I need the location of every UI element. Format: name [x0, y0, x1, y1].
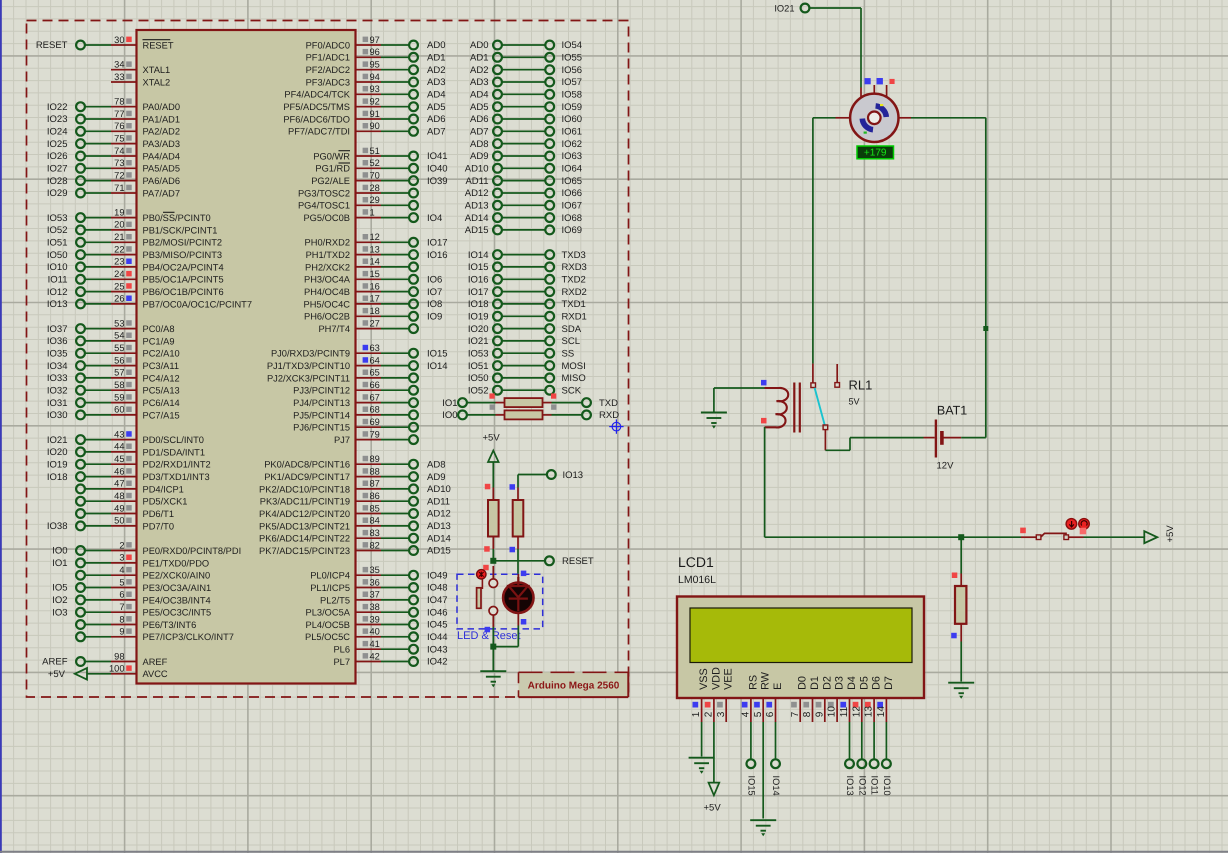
- LCD pin 10 D3: [827, 676, 846, 722]
- pin 68 PJ5/PCINT14 right: [293, 405, 418, 421]
- svg-text:D2: D2: [821, 676, 833, 690]
- svg-text:52: 52: [370, 158, 380, 168]
- svg-text:IO36: IO36: [47, 336, 68, 347]
- svg-text:IO67: IO67: [562, 201, 583, 212]
- svg-text:PG2/ALE: PG2/ALE: [311, 176, 350, 186]
- pin 41 PL6 right: [333, 639, 447, 655]
- svg-text:PB2/MOSI/PCINT2: PB2/MOSI/PCINT2: [143, 238, 223, 248]
- pin 89 PK0/ADC8/PCINT16 right: [264, 454, 445, 470]
- svg-text:PE2/XCK0/AIN0: PE2/XCK0/AIN0: [143, 571, 211, 581]
- svg-text:D6: D6: [871, 676, 883, 690]
- svg-text:27: 27: [370, 318, 380, 328]
- pin 42 PL7 right: [333, 651, 447, 667]
- pin 22 PB3/MISO/PCINT3 left: [47, 244, 222, 260]
- pin 12 PH0/RXD2 right: [305, 232, 448, 248]
- svg-text:IO40: IO40: [427, 164, 448, 175]
- wire net AD7 to terminal IO61: [470, 127, 582, 138]
- svg-text:+179: +179: [864, 148, 887, 159]
- svg-text:PJ1/TXD3/PCINT10: PJ1/TXD3/PCINT10: [267, 361, 350, 371]
- svg-text:AD0: AD0: [427, 40, 445, 51]
- svg-text:AD4: AD4: [470, 90, 488, 101]
- svg-text:51: 51: [370, 146, 380, 156]
- svg-text:6: 6: [119, 590, 124, 600]
- svg-text:79: 79: [370, 429, 380, 439]
- svg-text:IO21: IO21: [774, 4, 794, 14]
- svg-text:PL3/OC5A: PL3/OC5A: [306, 608, 351, 618]
- svg-text:AD11: AD11: [465, 176, 488, 187]
- pin 70 PG2/ALE right: [311, 170, 447, 186]
- pin 100 AVCC / power +5V: [48, 664, 168, 680]
- terminal IO11 (LCD data): [870, 722, 880, 795]
- svg-text:PH6/OC2B: PH6/OC2B: [304, 312, 350, 322]
- svg-text:IO65: IO65: [562, 176, 583, 187]
- svg-text:RL1: RL1: [849, 378, 873, 393]
- svg-text:IO15: IO15: [468, 262, 489, 273]
- svg-text:20: 20: [114, 220, 124, 230]
- relay RL1 coil: [714, 380, 800, 433]
- pin 2 PE0/RXD0/PCINT8/PDI left: [52, 540, 241, 556]
- svg-text:33: 33: [114, 72, 124, 82]
- resistor R3 between IO1 and TXD: [442, 398, 618, 409]
- svg-text:PH7/T4: PH7/T4: [318, 324, 350, 334]
- svg-text:PG4/TOSC1: PG4/TOSC1: [298, 201, 350, 211]
- svg-text:IO11: IO11: [48, 275, 68, 286]
- svg-text:45: 45: [114, 454, 124, 464]
- pin 72 PA6/AD6 left: [47, 170, 180, 186]
- svg-text:IO43: IO43: [427, 644, 448, 655]
- svg-text:AD7: AD7: [427, 127, 445, 138]
- svg-text:IO5: IO5: [52, 583, 67, 594]
- ground (resistor): [948, 683, 974, 694]
- svg-text:IO48: IO48: [427, 583, 448, 594]
- node junction / wire to RESET terminal: [490, 556, 594, 567]
- pin 14 PH2/XCK2 right: [305, 257, 418, 273]
- wire net AD8 to terminal IO62: [470, 139, 582, 150]
- svg-text:PC7/A15: PC7/A15: [143, 410, 180, 420]
- svg-text:8: 8: [119, 614, 124, 624]
- svg-text:IO20: IO20: [47, 447, 68, 458]
- pin 78 PA0/AD0 left: [47, 97, 180, 113]
- svg-text:PL0/ICP4: PL0/ICP4: [310, 571, 350, 581]
- svg-text:IO53: IO53: [468, 348, 489, 359]
- svg-text:AD14: AD14: [427, 533, 451, 544]
- svg-text:PD3/TXD1/INT3: PD3/TXD1/INT3: [143, 472, 210, 482]
- svg-text:PA2/AD2: PA2/AD2: [143, 127, 181, 137]
- svg-text:+5V: +5V: [48, 669, 66, 680]
- pin 75 PA3/AD3 left: [47, 133, 180, 149]
- LCD pin 7 D0: [790, 676, 809, 722]
- svg-text:XTAL2: XTAL2: [143, 77, 171, 87]
- pin 55 PC2/A10 left: [47, 343, 180, 359]
- wire net IO14 to terminal TXD3: [468, 250, 586, 261]
- svg-text:95: 95: [370, 60, 380, 70]
- svg-text:PL7: PL7: [333, 657, 350, 667]
- svg-text:PB6/OC1B/PCINT6: PB6/OC1B/PCINT6: [143, 287, 224, 297]
- svg-text:IO12: IO12: [47, 287, 68, 298]
- svg-text:IO53: IO53: [47, 213, 68, 224]
- terminal IO13 (LCD data): [845, 722, 855, 796]
- svg-text:PF5/ADC5/TMS: PF5/ADC5/TMS: [283, 102, 350, 112]
- svg-text:PE7/ICP3/CLKO/INT7: PE7/ICP3/CLKO/INT7: [143, 632, 234, 642]
- pin 34 XTAL1 left: [111, 60, 170, 76]
- svg-text:PE1/TXD0/PDO: PE1/TXD0/PDO: [143, 558, 210, 568]
- svg-text:PA5/AD5: PA5/AD5: [143, 164, 181, 174]
- svg-text:D0: D0: [797, 676, 809, 690]
- svg-text:IO21: IO21: [47, 435, 68, 446]
- svg-text:IO17: IO17: [468, 287, 489, 298]
- pin 13 PH1/TXD2 right: [306, 244, 448, 260]
- pin 52 PG1/RD right: [315, 158, 447, 174]
- svg-text:PD5/XCK1: PD5/XCK1: [143, 497, 188, 507]
- svg-text:PC4/A12: PC4/A12: [143, 373, 180, 383]
- svg-text:VSS: VSS: [698, 668, 710, 690]
- svg-text:97: 97: [370, 35, 380, 45]
- pin 67 PJ4/PCINT13 right: [293, 392, 418, 408]
- pin 47 PD4/ICP1 left: [76, 479, 184, 495]
- svg-text:3: 3: [716, 711, 727, 717]
- svg-text:18: 18: [370, 306, 380, 316]
- svg-text:PH0/RXD2: PH0/RXD2: [305, 238, 350, 248]
- svg-text:IO7: IO7: [427, 287, 442, 298]
- svg-text:PL5/OC5C: PL5/OC5C: [305, 632, 350, 642]
- svg-text:PK2/ADC10/PCINT18: PK2/ADC10/PCINT18: [259, 484, 350, 494]
- svg-text:IO1: IO1: [52, 558, 67, 569]
- svg-text:TXD: TXD: [599, 398, 618, 409]
- pin 15 PH3/OC4A right: [304, 269, 442, 285]
- pin 20 PB1/SCK/PCINT1 left: [47, 220, 218, 236]
- svg-text:VEE: VEE: [723, 668, 735, 690]
- svg-text:55: 55: [114, 343, 124, 353]
- svg-text:4: 4: [741, 711, 752, 717]
- Arduino Mega 2560 label box: [519, 672, 629, 697]
- svg-text:PH2/XCK2: PH2/XCK2: [305, 262, 350, 272]
- wire net AD5 to terminal IO59: [470, 102, 582, 113]
- wire net IO52 to terminal SCK: [468, 385, 582, 396]
- svg-text:PA3/AD3: PA3/AD3: [143, 139, 181, 149]
- terminal IO15 (LCD RS): [746, 722, 756, 796]
- pin 16 PH4/OC4B right: [304, 281, 442, 297]
- wire LCD VSS to ground: [701, 722, 703, 757]
- svg-text:IO52: IO52: [468, 385, 489, 396]
- svg-text:38: 38: [370, 602, 380, 612]
- svg-text:IO0: IO0: [442, 410, 457, 421]
- node junction +5V rail: [958, 534, 964, 540]
- node junction on right branch: [983, 326, 988, 331]
- wire motor left to relay common: [813, 117, 836, 119]
- pin 65 PJ2/XCK3/PCINT11 right: [267, 368, 418, 384]
- svg-text:23: 23: [114, 257, 124, 267]
- svg-text:25: 25: [114, 281, 124, 291]
- svg-text:IO19: IO19: [468, 312, 489, 323]
- battery BAT1: [924, 404, 968, 472]
- pin 36 PL1/ICP5 right: [310, 577, 447, 593]
- pin 64 PJ1/TXD3/PCINT10 right: [267, 355, 448, 371]
- svg-text:67: 67: [370, 392, 380, 402]
- svg-text:IO12: IO12: [857, 776, 867, 796]
- svg-text:IO56: IO56: [562, 65, 583, 76]
- pin 46 PD3/TXD1/INT3 left: [47, 466, 210, 482]
- svg-text:AD3: AD3: [427, 77, 445, 88]
- svg-text:AD14: AD14: [465, 213, 489, 224]
- svg-text:93: 93: [370, 84, 380, 94]
- svg-text:E: E: [772, 683, 784, 690]
- switch actuator buttons: [1066, 519, 1089, 535]
- svg-text:RESET: RESET: [143, 40, 174, 50]
- svg-text:68: 68: [370, 405, 380, 415]
- svg-text:IO62: IO62: [562, 139, 583, 150]
- svg-text:75: 75: [114, 133, 124, 143]
- svg-text:AD7: AD7: [470, 127, 488, 138]
- svg-text:AD6: AD6: [470, 114, 488, 125]
- svg-text:PJ6/PCINT15: PJ6/PCINT15: [293, 423, 350, 433]
- wire net AD13 to terminal IO67: [465, 201, 582, 212]
- svg-text:IO18: IO18: [47, 472, 68, 483]
- pin 91 PF6/ADC6/TDO right: [283, 109, 445, 125]
- svg-text:IO0: IO0: [52, 546, 67, 557]
- svg-text:1: 1: [370, 207, 375, 217]
- pin 27 PH7/T4 right: [318, 318, 417, 334]
- svg-text:4: 4: [119, 565, 124, 575]
- selection box LED & Reset: [457, 574, 543, 629]
- svg-text:IO16: IO16: [468, 275, 489, 286]
- svg-text:PD6/T1: PD6/T1: [143, 509, 175, 519]
- svg-text:RXD2: RXD2: [562, 287, 587, 298]
- pin 17 PH5/OC4C right: [304, 294, 443, 310]
- svg-text:IO69: IO69: [562, 225, 583, 236]
- pin 57 PC4/A12 left: [47, 368, 180, 384]
- svg-text:5: 5: [753, 711, 764, 717]
- svg-text:73: 73: [114, 158, 124, 168]
- pin 60 PC7/A15 left: [47, 405, 180, 421]
- svg-text:1: 1: [691, 711, 702, 717]
- svg-text:PF2/ADC2: PF2/ADC2: [306, 65, 350, 75]
- terminal IO14 (LCD E): [771, 722, 781, 796]
- pin 79 PJ7 right: [334, 429, 418, 445]
- svg-text:D4: D4: [846, 676, 858, 690]
- wire net IO53 to terminal SS: [468, 348, 574, 359]
- pin 69 PJ6/PCINT15 right: [293, 417, 418, 433]
- motor M1: [836, 78, 912, 142]
- svg-text:IO14: IO14: [427, 361, 448, 372]
- svg-text:+5V: +5V: [1165, 525, 1176, 543]
- pin 28 PG3/TOSC2 right: [298, 183, 418, 199]
- pin 40 PL5/OC5C right: [305, 627, 448, 643]
- svg-text:7: 7: [119, 602, 124, 612]
- pin 54 PC1/A9 left: [47, 331, 175, 347]
- svg-text:PH5/OC4C: PH5/OC4C: [304, 299, 351, 309]
- LCD pin 3 VEE: [716, 668, 735, 722]
- op-amp U1 : ATMEGA2560 IC body: [137, 30, 356, 684]
- pin 7 PE5/OC3C/INT5 left: [52, 602, 211, 618]
- pin 77 PA1/AD1 left: [47, 109, 180, 125]
- svg-text:IO64: IO64: [562, 164, 583, 175]
- svg-text:IO1: IO1: [442, 398, 457, 409]
- pin 76 PA2/AD2 left: [47, 121, 180, 137]
- svg-text:21: 21: [114, 232, 124, 242]
- svg-text:IO8: IO8: [427, 299, 442, 310]
- LCD pin 5 RW: [753, 671, 772, 722]
- wire button/LED to ground: [485, 626, 519, 672]
- wire net AD15 to terminal IO69: [465, 225, 582, 236]
- wire net AD2 to terminal IO56: [470, 65, 582, 76]
- svg-text:PA1/AD1: PA1/AD1: [143, 114, 181, 124]
- svg-text:AD5: AD5: [470, 102, 488, 113]
- svg-text:PB5/OC1A/PCINT5: PB5/OC1A/PCINT5: [143, 275, 224, 285]
- svg-text:AD1: AD1: [427, 53, 445, 64]
- pin 56 PC3/A11 left: [47, 355, 179, 371]
- svg-text:IO15: IO15: [746, 776, 756, 796]
- svg-text:IO35: IO35: [47, 348, 68, 359]
- LCD pin 4 RS: [741, 675, 760, 722]
- svg-text:MOSI: MOSI: [562, 361, 586, 372]
- svg-text:AD1: AD1: [470, 53, 488, 64]
- svg-text:60: 60: [114, 405, 124, 415]
- svg-text:74: 74: [114, 146, 124, 156]
- svg-text:89: 89: [370, 454, 380, 464]
- LCD pin 6 E: [765, 683, 784, 722]
- pin 26 PB7/OC0A/OC1C/PCINT7 left: [47, 294, 252, 310]
- svg-text:IO14: IO14: [771, 776, 781, 796]
- ground (relay coil): [701, 388, 727, 429]
- svg-text:IO28: IO28: [47, 176, 68, 187]
- svg-text:PG5/OC0B: PG5/OC0B: [303, 213, 350, 223]
- svg-text:IO11: IO11: [870, 776, 880, 795]
- svg-text:IO60: IO60: [562, 114, 583, 125]
- svg-text:RW: RW: [760, 671, 772, 690]
- svg-text:AD5: AD5: [427, 102, 445, 113]
- svg-text:PE5/OC3C/INT5: PE5/OC3C/INT5: [143, 608, 212, 618]
- svg-text:AD9: AD9: [427, 472, 445, 483]
- svg-text:RS: RS: [747, 675, 759, 690]
- wire net AD9 to terminal IO63: [470, 151, 582, 162]
- svg-text:PG0/WR: PG0/WR: [313, 151, 350, 161]
- pin 8 PE6/T3/INT6 left: [76, 614, 196, 630]
- svg-text:71: 71: [114, 183, 124, 193]
- svg-text:IO29: IO29: [47, 188, 68, 199]
- pin 51 PG0/WR right: [313, 146, 447, 162]
- svg-text:AD10: AD10: [465, 164, 489, 175]
- svg-text:IO15: IO15: [427, 348, 448, 359]
- svg-text:PK5/ADC13/PCINT21: PK5/ADC13/PCINT21: [259, 521, 350, 531]
- svg-text:PB3/MISO/PCINT3: PB3/MISO/PCINT3: [143, 250, 223, 260]
- svg-text:AVCC: AVCC: [143, 669, 168, 679]
- svg-text:IO9: IO9: [427, 312, 442, 323]
- svg-text:PC0/A8: PC0/A8: [143, 324, 175, 334]
- svg-text:72: 72: [114, 170, 124, 180]
- svg-text:PH3/OC4A: PH3/OC4A: [304, 275, 351, 285]
- svg-text:84: 84: [370, 516, 380, 526]
- svg-text:9: 9: [814, 711, 825, 717]
- LCD pin 1 VSS: [691, 668, 710, 722]
- svg-text:AD15: AD15: [427, 546, 451, 557]
- svg-text:SCK: SCK: [562, 385, 582, 396]
- pin 25 PB6/OC1B/PCINT6 left: [47, 281, 224, 297]
- svg-text:IO55: IO55: [562, 53, 583, 64]
- svg-text:PJ7: PJ7: [334, 435, 350, 445]
- svg-text:IO16: IO16: [427, 250, 448, 261]
- svg-text:IO44: IO44: [427, 632, 448, 643]
- power +5V arrow (LED section): [483, 433, 501, 488]
- svg-text:64: 64: [370, 355, 380, 365]
- svg-text:LCD1: LCD1: [678, 554, 714, 570]
- terminal IO13: [518, 470, 583, 481]
- pin 63 PJ0/RXD3/PCINT9 right: [271, 343, 448, 359]
- LCD pin 14 D7: [876, 676, 895, 722]
- svg-text:RESET: RESET: [36, 40, 68, 51]
- svg-text:IO37: IO37: [47, 324, 68, 335]
- svg-text:28: 28: [370, 183, 380, 193]
- pin 23 PB4/OC2A/PCINT4 left: [47, 257, 224, 273]
- pin 92 PF5/ADC5/TMS right: [283, 97, 445, 113]
- pin 66 PJ3/PCINT12 right: [293, 380, 418, 396]
- svg-text:AD3: AD3: [470, 77, 488, 88]
- svg-text:PJ2/XCK3/PCINT11: PJ2/XCK3/PCINT11: [267, 373, 350, 383]
- svg-text:PE6/T3/INT6: PE6/T3/INT6: [143, 620, 197, 630]
- pin 24 PB5/OC1A/PCINT5 left: [48, 269, 224, 285]
- svg-text:PJ4/PCINT13: PJ4/PCINT13: [293, 398, 350, 408]
- pin 39 PL4/OC5B right: [306, 614, 448, 630]
- svg-text:RXD3: RXD3: [562, 262, 587, 273]
- svg-text:TXD3: TXD3: [562, 250, 586, 261]
- svg-text:16: 16: [370, 281, 380, 291]
- svg-text:TXD2: TXD2: [562, 275, 586, 286]
- svg-text:AD12: AD12: [465, 188, 489, 199]
- svg-text:PD0/SCL/INT0: PD0/SCL/INT0: [143, 435, 204, 445]
- svg-text:IO20: IO20: [468, 324, 489, 335]
- svg-text:19: 19: [114, 207, 124, 217]
- svg-text:PK4/ADC12/PCINT20: PK4/ADC12/PCINT20: [259, 509, 350, 519]
- svg-text:10: 10: [827, 706, 838, 718]
- pin 83 PK6/ADC14/PCINT22 right: [259, 528, 451, 544]
- svg-text:59: 59: [114, 392, 124, 402]
- svg-text:22: 22: [114, 244, 124, 254]
- svg-text:15: 15: [370, 269, 380, 279]
- LCD pin 13 D6: [864, 676, 883, 722]
- svg-text:90: 90: [370, 121, 380, 131]
- pin 5 PE3/OC3A/AIN1 left: [52, 577, 211, 593]
- svg-text:12: 12: [851, 706, 862, 718]
- pin 94 PF3/ADC3 right: [306, 72, 446, 88]
- svg-text:35: 35: [370, 565, 380, 575]
- svg-text:57: 57: [114, 368, 124, 378]
- svg-text:39: 39: [370, 614, 380, 624]
- svg-text:41: 41: [370, 639, 380, 649]
- resistor R1: [484, 484, 498, 561]
- wire net IO19 to terminal RXD1: [468, 312, 587, 323]
- ground (LCD VSS): [689, 758, 715, 769]
- pin 85 PK4/ADC12/PCINT20 right: [259, 503, 451, 519]
- svg-text:5: 5: [119, 577, 124, 587]
- wire LCD RW to ground: [762, 722, 764, 819]
- svg-text:13: 13: [864, 706, 875, 718]
- pin 49 PD6/T1 left: [76, 503, 174, 519]
- pin 86 PK3/ADC11/PCINT19 right: [260, 491, 450, 507]
- svg-text:9: 9: [119, 627, 124, 637]
- pin 90 PF7/ADC7/TDI right: [288, 121, 445, 137]
- svg-text:36: 36: [370, 577, 380, 587]
- pin 88 PK1/ADC9/PCINT17 right: [264, 466, 445, 482]
- svg-text:88: 88: [370, 466, 380, 476]
- pin 4 PE2/XCK0/AIN0 left: [76, 565, 210, 581]
- svg-text:IO38: IO38: [47, 521, 68, 532]
- svg-text:IO10: IO10: [47, 262, 68, 273]
- svg-text:PB7/OC0A/OC1C/PCINT7: PB7/OC0A/OC1C/PCINT7: [143, 299, 253, 309]
- svg-text:PL4/OC5B: PL4/OC5B: [306, 620, 350, 630]
- svg-text:IO49: IO49: [427, 570, 448, 581]
- svg-text:AD11: AD11: [427, 496, 450, 507]
- svg-text:IO66: IO66: [562, 188, 583, 199]
- ground (LED section): [480, 671, 506, 682]
